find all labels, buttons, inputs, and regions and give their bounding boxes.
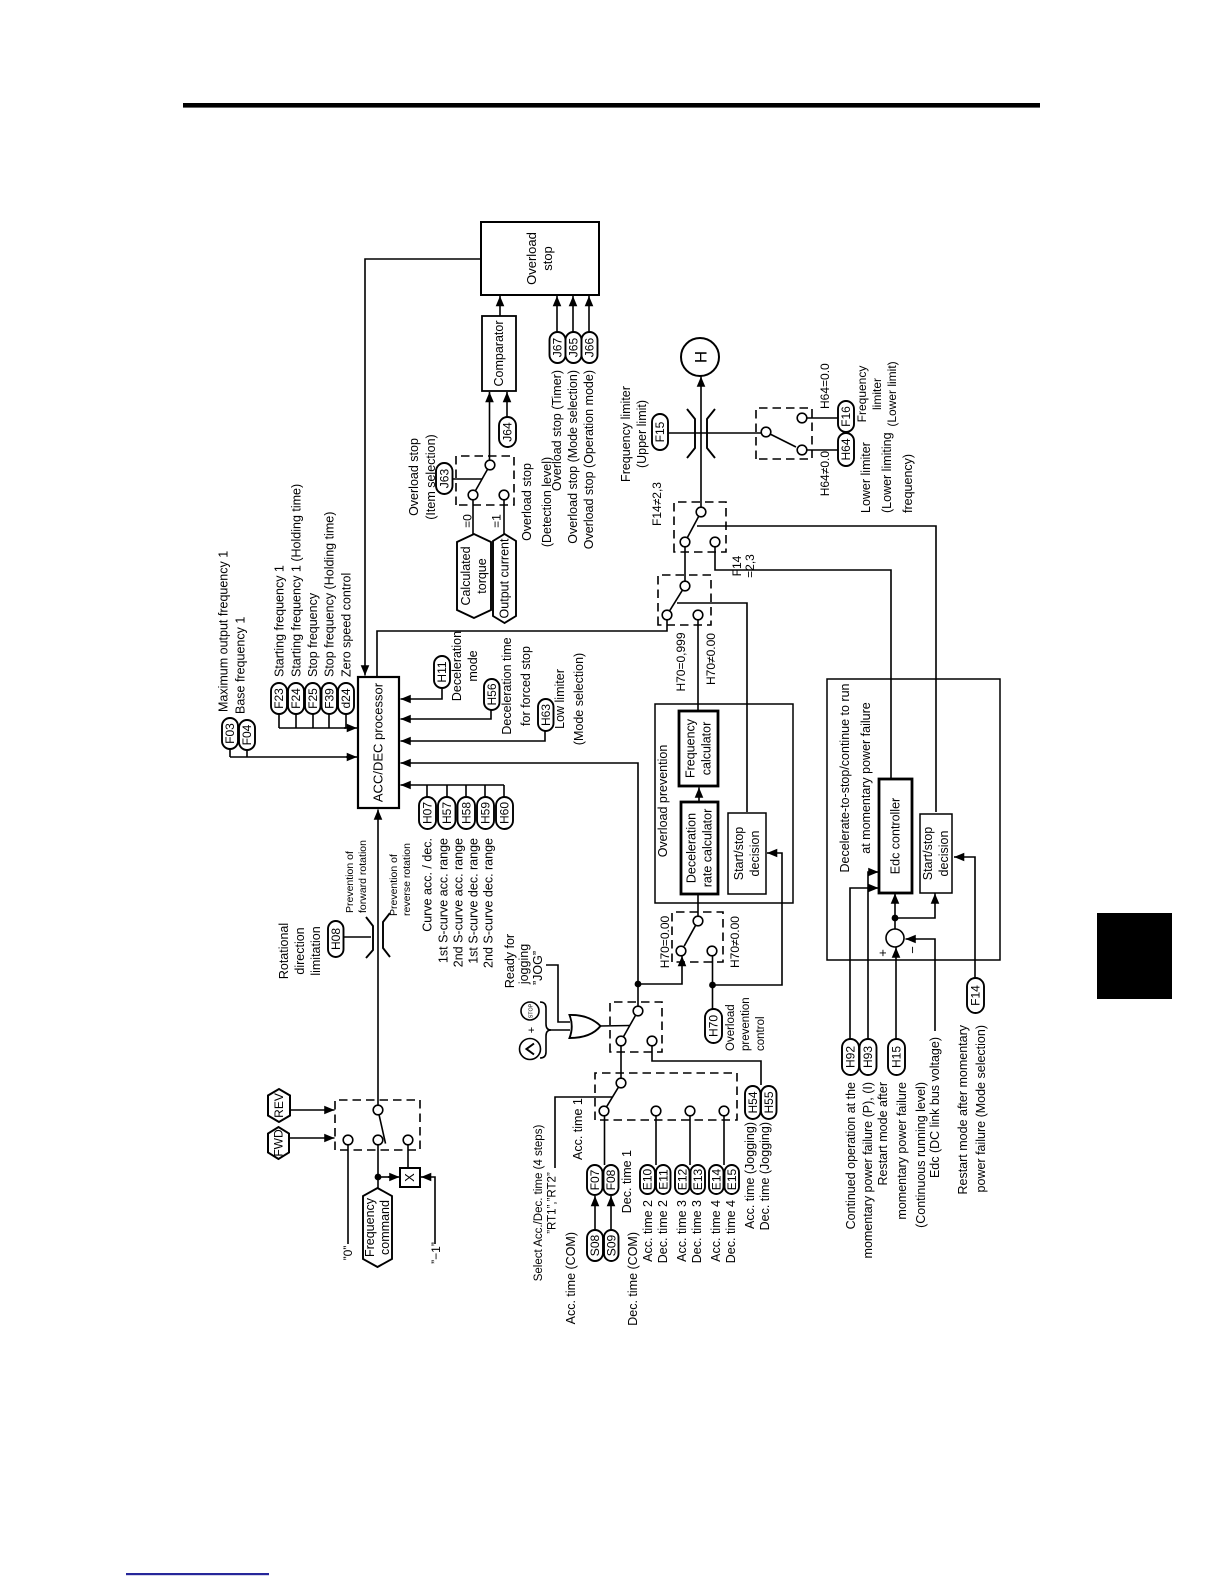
wire node into Edc controller	[894, 894, 896, 916]
svg-text:S09: S09	[604, 1235, 618, 1257]
wire comparator to overload stop	[499, 296, 501, 316]
key UP	[520, 1039, 541, 1060]
wire select acc/dec control to 4-step switch lever	[555, 1097, 612, 1168]
pill E11	[656, 1165, 671, 1194]
svg-text:F16: F16	[839, 406, 853, 427]
wire calculated torque to contact	[472, 500, 474, 534]
svg-text:Dec. time 3: Dec. time 3	[690, 1200, 704, 1263]
svg-text:1st S-curve acc. range: 1st S-curve acc. range	[437, 838, 451, 963]
wire H70 node to overload prevention start/stop	[713, 853, 783, 985]
pill H63	[538, 699, 554, 731]
svg-text:(Upper limit): (Upper limit)	[635, 400, 649, 468]
wire node into multiplier	[381, 1176, 392, 1178]
wire F14 pill to start/stop decision	[960, 857, 975, 978]
svg-text:Edc controller: Edc controller	[889, 798, 903, 874]
wire deceleration-time node into ACC/DEC	[406, 763, 638, 984]
svg-text:Deceleration: Deceleration	[685, 813, 699, 883]
svg-text:Stop frequency (Holding time): Stop frequency (Holding time)	[323, 512, 337, 677]
wire F14 pole node to start/stop decision	[697, 526, 936, 812]
svg-text:F07: F07	[588, 1169, 602, 1190]
svg-text:Comparator: Comparator	[492, 321, 506, 387]
pill F39	[322, 683, 338, 714]
svg-text:Restart mode after: Restart mode after	[876, 1082, 890, 1186]
svg-text:J63: J63	[437, 469, 451, 489]
svg-text:E12: E12	[675, 1169, 689, 1191]
svg-text:Stop frequency: Stop frequency	[306, 592, 320, 677]
pill H93	[860, 1039, 877, 1075]
pill H55	[761, 1086, 777, 1119]
key STOP	[521, 1002, 539, 1020]
svg-text:Rotational: Rotational	[277, 923, 291, 979]
svg-text:Deceleration time: Deceleration time	[500, 637, 514, 734]
svg-text:FWD: FWD	[272, 1129, 286, 1157]
svg-text:H07: H07	[421, 802, 435, 824]
svg-text:−: −	[905, 946, 920, 954]
svg-text:(Lower limit): (Lower limit)	[885, 361, 899, 426]
pill H59	[477, 797, 494, 829]
pill F16	[838, 401, 854, 432]
block overload prevention	[655, 704, 793, 903]
svg-text:J64: J64	[501, 422, 515, 442]
wire F15 through limiter to lower-limit switch pole	[668, 432, 762, 434]
svg-text:H63: H63	[539, 704, 553, 726]
svg-text:(Item selection): (Item selection)	[424, 434, 438, 519]
svg-text:calculator: calculator	[700, 722, 714, 776]
svg-text:torque: torque	[475, 558, 489, 593]
pill F03	[222, 718, 238, 749]
block frequency calculator	[679, 711, 718, 786]
wire 4-step contact 2 to E10/E11	[655, 1116, 657, 1166]
wire H15 to summation	[895, 948, 897, 1040]
svg-text:H64=0.0: H64=0.0	[818, 363, 832, 409]
wire J64 to comparator	[506, 392, 508, 417]
svg-text:H92: H92	[844, 1046, 858, 1068]
svg-text:F04: F04	[240, 724, 254, 745]
svg-text:F08: F08	[604, 1169, 618, 1190]
svg-text:for forced stop: for forced stop	[519, 646, 533, 726]
svg-text:Overload: Overload	[725, 1004, 737, 1051]
svg-text:F23: F23	[272, 688, 286, 709]
wire H92 into Edc controller	[850, 888, 874, 1039]
svg-text:=0: =0	[461, 514, 475, 528]
svg-text:J66: J66	[583, 338, 597, 358]
svg-text:E11: E11	[656, 1169, 670, 1190]
wire H63 into ACC/DEC	[406, 731, 545, 741]
wire frequency command to switch contact	[377, 1145, 379, 1189]
node H output	[681, 338, 719, 376]
switch F14	[674, 502, 726, 552]
svg-text:H: H	[692, 351, 711, 363]
svg-text:Edc (DC link bus voltage): Edc (DC link bus voltage)	[928, 1037, 942, 1178]
pill d24	[338, 683, 354, 714]
pill H11	[434, 656, 450, 688]
block start/stop decision power failure	[920, 814, 952, 893]
pill H54	[745, 1086, 761, 1119]
wire H70 upper pole node to start/stop decision	[677, 603, 747, 812]
wire FWD flag to switch	[289, 1137, 335, 1139]
svg-text:(Continuous running level): (Continuous running level)	[914, 1082, 928, 1228]
pill E13	[691, 1165, 706, 1194]
wire lower limit switch contact to H64	[807, 449, 839, 451]
wire S08 to F07	[594, 1196, 596, 1230]
pill S08	[587, 1230, 603, 1261]
wire F23-d24 bus into ACC/DEC	[279, 714, 346, 728]
pill H57	[438, 797, 456, 829]
svg-text:X: X	[402, 1173, 417, 1182]
signal calculated torque	[457, 534, 491, 618]
pill F23	[271, 683, 287, 714]
wire J65 to overload stop	[572, 296, 574, 332]
pill S09	[604, 1230, 619, 1261]
wire node into start/stop decision	[895, 900, 935, 918]
wire deceleration rate calculator to frequency calculator	[698, 788, 700, 803]
node summation output	[892, 915, 899, 922]
svg-text:H55: H55	[762, 1091, 776, 1113]
svg-text:Low limiter: Low limiter	[553, 669, 567, 729]
wire J63 switch pole to comparator	[489, 392, 491, 460]
svg-text:H70≠0.00: H70≠0.00	[728, 916, 742, 968]
svg-text:rate calculator: rate calculator	[701, 809, 715, 888]
svg-text:Acc. time 2: Acc. time 2	[641, 1200, 655, 1262]
svg-text:REV: REV	[272, 1093, 286, 1118]
svg-text:Output current: Output current	[498, 538, 512, 618]
svg-text:H15: H15	[890, 1046, 904, 1068]
pill F15	[652, 414, 668, 450]
pill E14	[709, 1165, 724, 1194]
wire OR gate to jogging switch lever	[600, 1025, 630, 1028]
pill J64	[499, 417, 516, 447]
svg-text:Frequency: Frequency	[855, 366, 869, 423]
wire J67 to overload stop	[556, 296, 558, 332]
svg-text:Deceleration: Deceleration	[450, 631, 464, 701]
wire H93 into Edc controller	[868, 872, 874, 1039]
switch J63 item selection	[456, 456, 514, 505]
svg-text:Start/stop: Start/stop	[732, 827, 746, 881]
node deceleration time junction	[635, 981, 642, 988]
svg-text:decision: decision	[937, 831, 951, 877]
svg-text:Dec. time 4: Dec. time 4	[724, 1200, 738, 1263]
svg-text:H64≠0.0: H64≠0.0	[818, 451, 832, 497]
node frequency command branch	[375, 1174, 382, 1181]
svg-text:prevention: prevention	[740, 997, 752, 1051]
pill H64	[838, 433, 854, 466]
wire frequency calculator to H70 contact	[697, 620, 699, 711]
svg-text:momentary power failure: momentary power failure	[895, 1082, 909, 1220]
svg-text:H59: H59	[479, 802, 493, 824]
svg-text:Acc. time (Jogging): Acc. time (Jogging)	[743, 1122, 757, 1229]
switch H70 upper	[658, 575, 711, 625]
svg-text:=1: =1	[490, 514, 504, 528]
wire overload stop feedback to ACC/DEC	[365, 259, 481, 676]
gate OR jogging	[570, 1015, 601, 1038]
svg-text:Restart mode after momentary: Restart mode after momentary	[956, 1024, 970, 1194]
svg-text:Calculated: Calculated	[459, 546, 473, 605]
svg-text:H58: H58	[459, 802, 473, 824]
summing junction	[886, 929, 904, 947]
svg-text:H93: H93	[861, 1046, 875, 1068]
svg-text:(Lower limiting: (Lower limiting	[880, 432, 894, 513]
svg-text:H11: H11	[435, 661, 449, 682]
wire H70 lower pole to deceleration rate calculator	[697, 894, 699, 917]
pill F25	[305, 683, 321, 714]
pill H08	[328, 921, 344, 957]
terminal REV	[268, 1089, 290, 1122]
svg-text:Frequency: Frequency	[684, 718, 698, 778]
svg-text:direction: direction	[293, 927, 307, 974]
wire J63 control	[453, 478, 483, 480]
pill H70	[705, 1009, 722, 1043]
svg-text:H64: H64	[839, 438, 853, 460]
svg-text:(Mode selection): (Mode selection)	[572, 653, 586, 745]
pill F07	[587, 1165, 603, 1195]
svg-text:Overload stop (Operation mode): Overload stop (Operation mode)	[582, 370, 596, 549]
wire H56 into ACC/DEC	[406, 710, 491, 719]
signal frequency command	[363, 1188, 392, 1267]
svg-text:H57: H57	[440, 802, 454, 824]
svg-text:Dec. time 2: Dec. time 2	[656, 1200, 670, 1263]
svg-text:F14: F14	[730, 555, 744, 576]
svg-text:2nd S-curve dec. range: 2nd S-curve dec. range	[482, 838, 496, 968]
block decelerate-to-stop at momentary power failure	[827, 679, 1000, 960]
svg-text:”RT1”,”RT2”: ”RT1”,”RT2”	[547, 1172, 559, 1234]
svg-text:mode: mode	[466, 650, 480, 681]
wire H08 to limiter	[344, 936, 372, 938]
svg-text:limitation: limitation	[309, 926, 323, 975]
svg-text:F14≠2,3: F14≠2,3	[650, 482, 664, 526]
block overload stop	[481, 222, 599, 295]
svg-text:”−1”: ”−1”	[429, 1242, 443, 1264]
wire multiplier to switch contact	[407, 1145, 409, 1169]
wire 4-step contact 4 to E14/E15	[723, 1116, 725, 1166]
pill H07	[419, 797, 436, 829]
svg-text:Zero speed control: Zero speed control	[340, 573, 354, 677]
svg-text:power failure (Mode selection): power failure (Mode selection)	[974, 1025, 988, 1192]
page footer rule	[126, 1573, 269, 1575]
svg-text:Starting frequency 1: Starting frequency 1	[273, 565, 287, 677]
svg-text:Decelerate-to-stop/continue to: Decelerate-to-stop/continue to run	[838, 683, 852, 872]
wire jogging switch pole to node	[637, 984, 639, 1007]
svg-text:Dec. time 1: Dec. time 1	[620, 1150, 634, 1213]
svg-text:at momentary power failure: at momentary power failure	[859, 702, 873, 854]
pill E15	[725, 1165, 740, 1194]
svg-text:Acc. time (COM): Acc. time (COM)	[564, 1232, 578, 1324]
svg-text:”0”: ”0”	[341, 1246, 355, 1261]
svg-text:H70≠0.00: H70≠0.00	[704, 633, 718, 685]
svg-text:Select Acc./Dec. time (4 steps: Select Acc./Dec. time (4 steps)	[533, 1125, 545, 1282]
svg-text:Acc. time 4: Acc. time 4	[709, 1200, 723, 1262]
pill H60	[496, 797, 513, 829]
wire output current to contact	[503, 500, 505, 534]
svg-text:H70: H70	[707, 1015, 721, 1037]
pill F24	[288, 683, 304, 714]
svg-text:Overload: Overload	[524, 232, 539, 285]
svg-text:H60: H60	[498, 802, 512, 824]
block ACC/DEC processor	[358, 677, 399, 808]
svg-text:Acc. time 3: Acc. time 3	[675, 1200, 689, 1262]
svg-text:jogging: jogging	[517, 944, 531, 985]
svg-text:forward rotation: forward rotation	[357, 840, 369, 913]
wire S09 to F08	[610, 1196, 612, 1230]
wire F03/F04 bus into ACC/DEC	[230, 749, 351, 757]
svg-text:F39: F39	[322, 688, 336, 709]
svg-text:F15: F15	[653, 421, 667, 442]
signal output current	[493, 534, 516, 623]
wire keys to OR gate	[549, 1029, 570, 1031]
svg-text:=2,3: =2,3	[743, 554, 757, 578]
svg-text:Base frequency 1: Base frequency 1	[234, 617, 248, 714]
pill H15	[888, 1039, 905, 1075]
svg-text:Overload stop: Overload stop	[520, 463, 534, 541]
svg-text:H70=0,999: H70=0,999	[674, 632, 688, 691]
wire jogging right contact to H54/H55	[652, 1046, 761, 1086]
svg-text:F25: F25	[306, 688, 320, 709]
switch lower limiter select H64/F16	[756, 408, 812, 459]
svg-text:Dec. time (Jogging): Dec. time (Jogging)	[758, 1122, 772, 1230]
switch run direction FWD/REV	[335, 1100, 420, 1150]
svg-text:+: +	[526, 1027, 538, 1033]
wire F14=2,3 contact to Edc controller	[715, 542, 891, 778]
svg-text:Ready for: Ready for	[503, 934, 517, 988]
svg-text:J65: J65	[567, 338, 581, 358]
svg-text:H56: H56	[485, 683, 499, 705]
pill H58	[458, 797, 476, 829]
pill F08	[604, 1165, 619, 1195]
svg-text:Acc. time 1: Acc. time 1	[571, 1098, 585, 1160]
svg-text:1st S-curve dec. range: 1st S-curve dec. range	[467, 838, 481, 964]
wire H70 pill to node	[712, 988, 714, 1009]
svg-text:d24: d24	[339, 688, 353, 708]
svg-text:Frequency limiter: Frequency limiter	[619, 386, 633, 482]
svg-text:Overload prevention: Overload prevention	[656, 745, 670, 858]
wire REV flag to switch	[290, 1109, 335, 1111]
keys brace	[540, 1002, 551, 1058]
wire zero contact	[347, 1145, 349, 1245]
svg-text:E15: E15	[725, 1169, 739, 1191]
block Edc controller	[879, 779, 912, 893]
wire H07-H60 bus into ACC/DEC	[406, 785, 504, 797]
svg-text:limiter: limiter	[870, 378, 884, 410]
svg-text:F14: F14	[969, 985, 983, 1006]
limiter frequency upper/lower F15	[687, 409, 695, 458]
wire lower limit switch contact to F16	[807, 417, 839, 419]
switch acc/dec time 4 steps	[595, 1073, 737, 1120]
pill J63	[436, 463, 453, 494]
svg-text:2nd S-curve acc. range: 2nd S-curve acc. range	[452, 838, 466, 967]
wire 4-step contact 1 to F07/F08	[604, 1116, 606, 1166]
wire J66 to overload stop	[588, 296, 590, 332]
wire 4-step contact 3 to E12/E13	[689, 1116, 691, 1166]
pill H56	[484, 679, 500, 710]
svg-text:Overload stop (Timer): Overload stop (Timer)	[550, 370, 564, 491]
svg-text:Dec. time (COM): Dec. time (COM)	[626, 1232, 640, 1326]
svg-text:command: command	[378, 1200, 392, 1255]
svg-text:Starting frequency 1 (Holding: Starting frequency 1 (Holding time)	[290, 484, 304, 677]
wire node to H70=0.00 contact	[638, 956, 682, 984]
svg-text:decision: decision	[748, 831, 762, 877]
svg-text:”JOG”: ”JOG”	[531, 951, 545, 985]
wire FWD/REV switch pole to ACC/DEC input	[377, 810, 379, 1106]
wire Edc voltage to summation	[912, 939, 935, 1031]
svg-text:Frequency: Frequency	[363, 1197, 377, 1257]
wire H11 into ACC/DEC	[406, 688, 442, 699]
wire jogging left contact to 4-step pole	[620, 1046, 622, 1079]
wire ACC/DEC output to H70 switch	[377, 620, 667, 677]
svg-text:reverse rotation: reverse rotation	[401, 843, 413, 916]
svg-text:Curve acc. / dec.: Curve acc. / dec.	[421, 838, 435, 932]
pill E10	[640, 1165, 655, 1194]
pill J66	[582, 332, 598, 363]
svg-text:E10: E10	[641, 1169, 655, 1191]
svg-text:H08: H08	[329, 928, 343, 950]
wire JOG ready to OR gate	[546, 965, 570, 1022]
svg-text:control: control	[755, 1016, 767, 1051]
svg-text:STOP: STOP	[529, 1003, 535, 1018]
svg-text:Overload stop: Overload stop	[407, 438, 421, 516]
pill F04	[239, 720, 255, 750]
svg-text:F03: F03	[223, 723, 237, 744]
svg-text:S08: S08	[588, 1235, 602, 1257]
pill H92	[842, 1039, 859, 1075]
block start/stop decision overload prevention	[728, 813, 766, 894]
svg-text:ACC/DEC processor: ACC/DEC processor	[371, 682, 386, 802]
svg-text:E14: E14	[709, 1169, 723, 1191]
wire H70 switch pole to F14 contact	[684, 547, 686, 581]
svg-text:Maximum output frequency 1: Maximum output frequency 1	[217, 551, 231, 712]
limiter rotational direction H08	[366, 917, 373, 958]
svg-text:frequency): frequency)	[901, 454, 915, 513]
wire node to H70 not-0 contact	[712, 956, 714, 982]
svg-text:Prevention of: Prevention of	[388, 854, 400, 916]
svg-text:Prevention of: Prevention of	[344, 851, 356, 913]
wire minus-one into multiplier	[428, 1177, 435, 1244]
page side tab	[1097, 913, 1172, 999]
terminal FWD	[268, 1127, 289, 1159]
svg-text:J67: J67	[551, 338, 565, 358]
wire summation to node	[894, 921, 896, 929]
block comparator	[482, 316, 516, 391]
pill E12	[675, 1165, 690, 1194]
svg-text:Continued operation at the: Continued operation at the	[844, 1082, 858, 1229]
wire F14 pole to frequency limiter and H	[700, 377, 702, 508]
svg-text:H54: H54	[746, 1091, 760, 1113]
svg-text:stop: stop	[540, 246, 555, 271]
pill J67	[550, 332, 566, 363]
pill F14	[967, 978, 984, 1013]
switch H70 lower	[672, 912, 723, 962]
page header rule	[183, 103, 1040, 108]
switch jogging select	[610, 1002, 662, 1052]
svg-text:Overload stop (Mode selection): Overload stop (Mode selection)	[566, 370, 580, 544]
svg-text:+: +	[875, 949, 890, 957]
svg-text:Lower limiter: Lower limiter	[859, 442, 873, 513]
block multiplier X	[400, 1168, 420, 1187]
pill J65	[566, 332, 582, 363]
node H70 junction	[709, 982, 716, 989]
svg-text:E13: E13	[691, 1169, 705, 1191]
block deceleration rate calculator	[681, 802, 718, 894]
svg-text:F24: F24	[289, 688, 303, 709]
svg-text:H70=0.00: H70=0.00	[658, 915, 672, 968]
svg-text:Start/stop: Start/stop	[921, 827, 935, 881]
svg-text:momentary power failure (P),: momentary power failure (P), (I)	[861, 1082, 875, 1258]
